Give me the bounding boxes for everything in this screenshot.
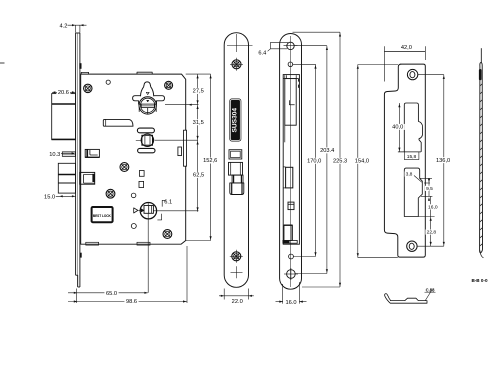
screw D lower-left (106, 189, 115, 198)
dim 22.8 (418, 217, 437, 247)
svg-text:9,5: 9,5 (426, 186, 433, 192)
latch guide box (283, 75, 299, 88)
cylinder slot lower (138, 148, 155, 152)
deadbolt cutout (283, 167, 292, 188)
svg-text:203.4: 203.4 (320, 148, 334, 154)
dim 6.4 hole dia (257, 42, 288, 56)
triangle pointer (134, 208, 138, 213)
dim 22.0 (219, 289, 254, 306)
edge slider small (178, 147, 182, 156)
view 2: faceplate front view (219, 33, 254, 305)
section bulge top (479, 69, 482, 80)
faceplate outline (224, 33, 248, 288)
dim 136.0 (417, 75, 452, 247)
handle follower wing bar (133, 96, 165, 104)
svg-text:42,0: 42,0 (401, 45, 412, 51)
section B-B lip profile (385, 294, 427, 304)
deadbolt follower centerline vertical (147, 203, 149, 206)
left protrusion 20.6 case depth box (52, 94, 76, 140)
case inner rect (283, 75, 299, 245)
dim 15.0 (43, 194, 76, 201)
page margin tick (0, 62, 5, 64)
latch bolt side view (58, 163, 75, 193)
weld tab top on faceplate (79, 63, 81, 69)
lock case body outline (81, 74, 186, 244)
small square hole (288, 202, 294, 210)
svg-text:BEST LOCK: BEST LOCK (93, 214, 112, 218)
svg-text:4.2: 4.2 (60, 23, 68, 29)
deadbolt follower slot (144, 206, 153, 214)
svg-text:15,8: 15,8 (407, 154, 417, 160)
handle follower lower ears (139, 107, 156, 112)
latch bolt front (229, 162, 244, 194)
svg-text:152,6: 152,6 (203, 158, 217, 164)
top edge tab left (81, 72, 88, 74)
svg-text:15.0: 15.0 (44, 194, 55, 200)
dim 203.4 (294, 46, 336, 274)
deadbolt follower circle (140, 203, 156, 219)
weld tab bottom on faceplate (80, 253, 82, 258)
screw B top-right (165, 81, 173, 89)
handle follower spindle slot (141, 104, 154, 108)
strike plate outline with lip (384, 64, 425, 257)
svg-text:22,8: 22,8 (427, 230, 437, 236)
cylinder cam square (142, 135, 153, 145)
screw C middle-left (120, 163, 129, 172)
svg-text:170,0: 170,0 (307, 159, 321, 165)
inner left line (284, 125, 286, 142)
svg-text:C.88: C.88 (426, 287, 436, 292)
screw hole bottom (230, 250, 243, 263)
deadbolt opening (229, 150, 242, 159)
pin hole top (288, 62, 293, 67)
plate outline (280, 34, 302, 290)
deadbolt cutout (404, 168, 422, 216)
dim 170.0 (293, 64, 323, 256)
screw hole top (230, 58, 243, 71)
svg-text:3,8: 3,8 (406, 172, 413, 178)
svg-text:16,0: 16,0 (428, 204, 438, 210)
dim 4.2 faceplate thickness (58, 23, 86, 33)
dim 16.0 right (421, 196, 439, 216)
hole small top (106, 80, 110, 84)
view 1: mortise lock case, side view (43, 23, 220, 305)
svg-text:154,0: 154,0 (355, 159, 369, 165)
screw hole bottom (407, 241, 417, 251)
dim chain 27.5 31.5 62.5 (155, 74, 211, 212)
dim 3.8 (404, 171, 421, 182)
latch channel (285, 75, 296, 125)
hole small mid (131, 193, 136, 198)
centerline cross top (227, 45, 253, 47)
svg-text:65.0: 65.0 (106, 291, 117, 297)
dim 65.0 bottom (68, 289, 148, 304)
svg-text:225.3: 225.3 (333, 159, 347, 165)
square hole lower (139, 181, 144, 187)
view 3: lock assembled front view (257, 32, 349, 306)
top whisker (480, 48, 482, 62)
dim 9.5 ticks (420, 178, 434, 196)
slot parallelogram (103, 119, 133, 126)
screw hole top (407, 69, 417, 79)
dim 98.6 bottom (68, 246, 187, 305)
dark corner piece (283, 240, 297, 243)
dim 20.6 (52, 90, 75, 97)
dim 40.0 (391, 103, 405, 152)
bottom curl (480, 251, 484, 258)
dim 10.3 (48, 151, 75, 158)
svg-text:22.0: 22.0 (232, 299, 243, 305)
view 5: strike plate side section (479, 48, 484, 258)
hatching (480, 84, 483, 246)
cylinder slot upper (137, 128, 154, 133)
faceplate strip (side) (76, 33, 80, 287)
SUS304 badge (229, 99, 241, 142)
screw A top-left (84, 84, 92, 92)
svg-text:B-B 0-0: B-B 0-0 (471, 278, 488, 283)
svg-text:40,0: 40,0 (392, 125, 403, 131)
edge slider tall (184, 130, 187, 166)
deadbolt follower centerline horizontal (138, 209, 141, 211)
dim 154.0 (353, 65, 398, 258)
svg-text:20.6: 20.6 (58, 90, 69, 96)
handle follower bell (141, 82, 154, 96)
deadbolt front (80, 172, 95, 184)
cylinder cam circle (141, 134, 153, 146)
svg-text:136,0: 136,0 (436, 158, 450, 164)
label C.88 (425, 287, 436, 300)
svg-text:10.3: 10.3 (49, 152, 60, 158)
centerline cross bottom (231, 271, 243, 273)
square hole upper (139, 171, 144, 177)
svg-text:31,5: 31,5 (193, 120, 204, 126)
svg-text:16.0: 16.0 (285, 300, 296, 306)
svg-text:6.4: 6.4 (258, 51, 266, 57)
lower rect thick left (284, 225, 292, 240)
view 4: strike plate front view (353, 44, 452, 257)
svg-text:SUS304: SUS304 (231, 108, 238, 133)
hole small low (131, 224, 136, 229)
svg-text:27,5: 27,5 (193, 89, 204, 95)
bottom edge tab middle (137, 242, 150, 245)
svg-text:98.6: 98.6 (126, 299, 137, 305)
dim 16.0 bottom (276, 282, 307, 306)
dim 42.0 (384, 44, 425, 81)
auxiliary bolt side view (62, 152, 75, 156)
handle follower hub circle (139, 97, 156, 114)
screw hole top (284, 42, 298, 49)
top edge tab middle (137, 72, 152, 74)
screw hole bottom (284, 268, 298, 280)
dim 152.6 (186, 74, 219, 240)
svg-text:62,5: 62,5 (193, 173, 204, 179)
dim 6.1 leader (157, 199, 173, 220)
BEST LOCK badge (92, 207, 113, 222)
latch cutout bottom box 15.8 (398, 152, 421, 160)
auxiliary bolt front (85, 149, 99, 157)
bottom edge tab left (86, 242, 99, 245)
screw E lower-right (163, 230, 172, 239)
handle follower arrow mark (146, 92, 149, 94)
vertical centerline (290, 36, 292, 287)
dim 225.3 (293, 32, 349, 287)
pin hole bottom (289, 254, 294, 259)
latch cutout (404, 103, 422, 152)
